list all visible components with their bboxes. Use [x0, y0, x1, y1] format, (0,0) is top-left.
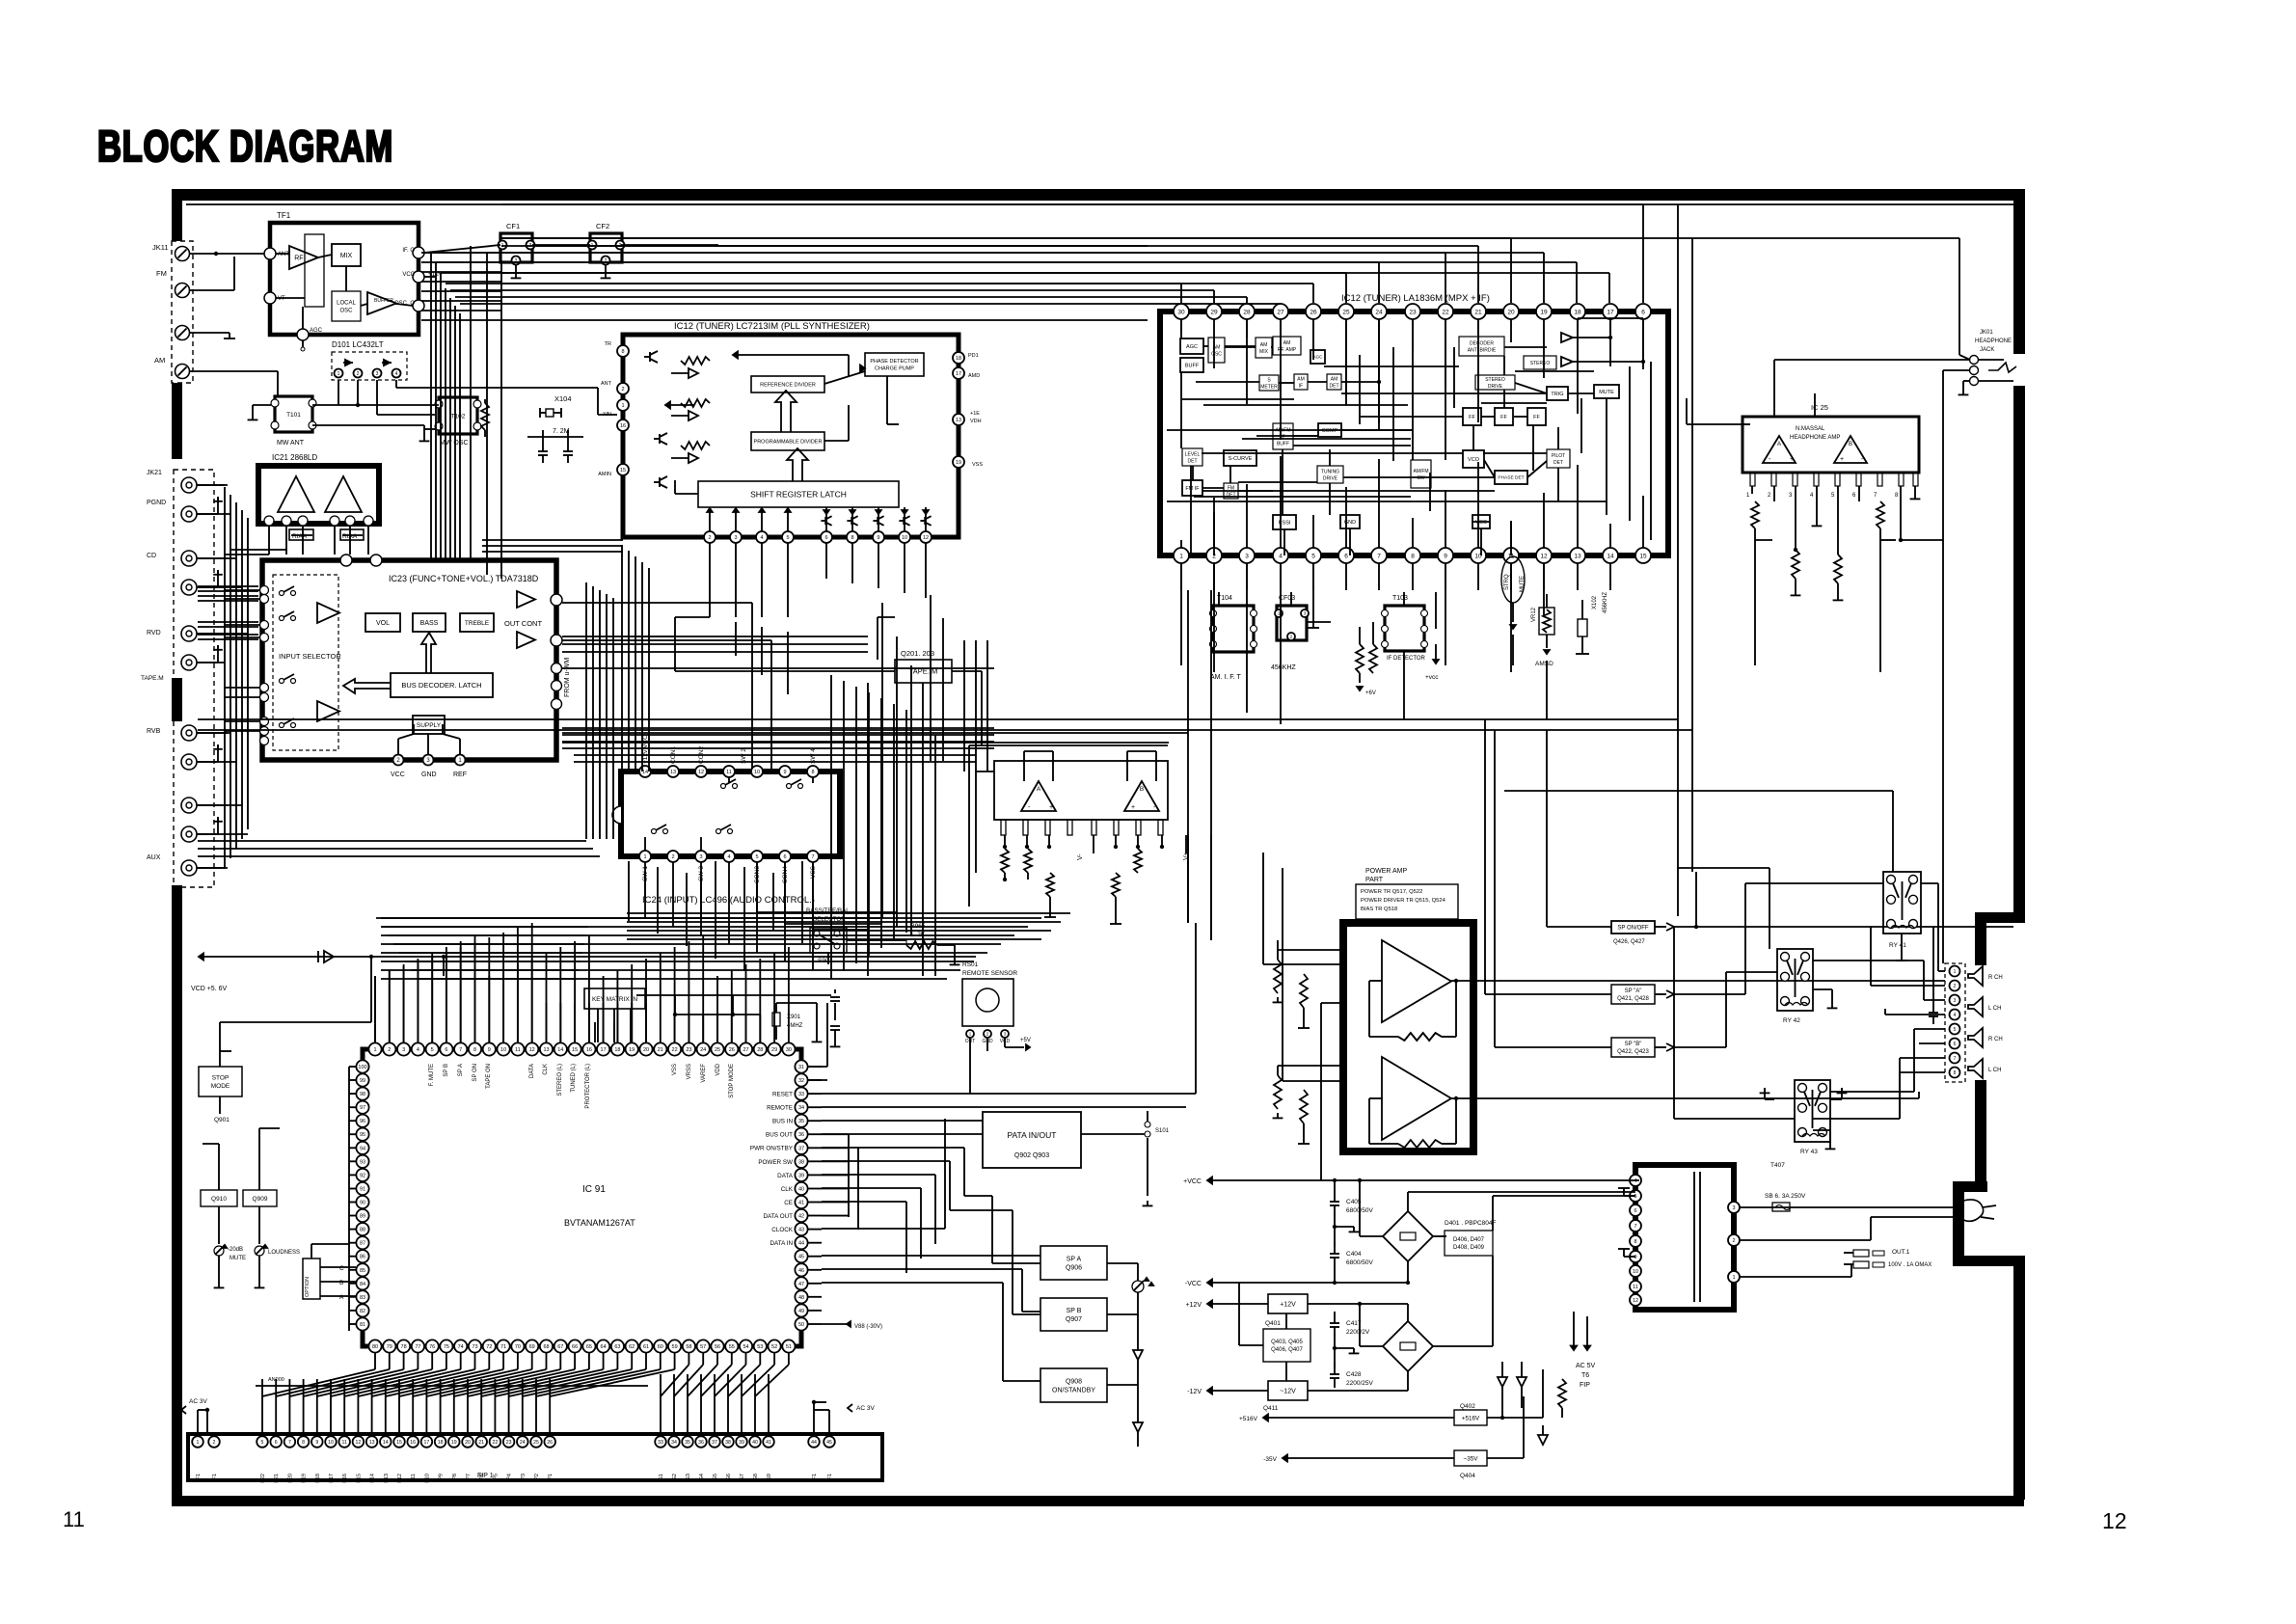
svg-text:+12v VCC: +12v VCC [642, 735, 649, 764]
svg-text:MW OSC: MW OSC [440, 440, 469, 447]
svg-text:22: 22 [493, 1440, 499, 1446]
svg-text:25: 25 [533, 1440, 539, 1446]
svg-text:6: 6 [1634, 1208, 1636, 1214]
svg-text:F1: F1 [827, 1474, 833, 1479]
svg-text:7: 7 [1634, 1224, 1636, 1230]
svg-text:19: 19 [451, 1440, 457, 1446]
svg-text:RIAA: RIAA [292, 533, 308, 540]
svg-text:13: 13 [369, 1440, 375, 1446]
svg-text:+12V: +12V [1185, 1302, 1202, 1309]
svg-text:80: 80 [372, 1344, 378, 1350]
svg-text:CE: CE [784, 1200, 793, 1206]
svg-text:RF: RF [294, 256, 303, 262]
svg-text:VSS: VSS [672, 1064, 678, 1075]
svg-text:SP "A": SP "A" [1625, 988, 1642, 994]
svg-text:P8: P8 [452, 1474, 458, 1480]
svg-text:TR: TR [605, 341, 611, 347]
svg-text:62: 62 [629, 1344, 635, 1350]
svg-text:IF: IF [1299, 383, 1303, 389]
svg-text:22: 22 [1442, 309, 1449, 315]
svg-text:35: 35 [685, 1440, 690, 1446]
svg-text:VAREF: VAREF [701, 1064, 707, 1083]
svg-text:OUT CONT: OUT CONT [504, 619, 542, 628]
svg-text:VDH: VDH [970, 419, 982, 424]
svg-text:93: 93 [360, 1159, 365, 1165]
svg-text:STEREO: STEREO [1530, 361, 1551, 366]
svg-text:50: 50 [798, 1322, 804, 1328]
svg-text:1: 1 [621, 403, 624, 409]
svg-text:2: 2 [388, 1047, 391, 1053]
svg-text:94: 94 [360, 1146, 365, 1151]
svg-text:POWER SW: POWER SW [758, 1159, 793, 1166]
svg-text:10: 10 [902, 535, 907, 541]
svg-text:AM: AM [1283, 340, 1291, 346]
svg-text:56: 56 [715, 1344, 720, 1350]
svg-text:34: 34 [798, 1105, 804, 1111]
svg-text:4: 4 [1810, 493, 1814, 499]
svg-text:+6V: +6V [1365, 690, 1376, 696]
svg-text:SP A: SP A [458, 1064, 464, 1076]
svg-text:40: 40 [798, 1186, 804, 1192]
svg-text:67: 67 [557, 1344, 563, 1350]
svg-text:96: 96 [360, 1119, 365, 1124]
svg-text:79: 79 [387, 1344, 392, 1350]
svg-text:15: 15 [572, 1047, 578, 1053]
svg-text:D406, D407: D406, D407 [1453, 1237, 1485, 1243]
svg-text:BASS: BASS [420, 620, 439, 627]
svg-text:TUNED (L): TUNED (L) [571, 1064, 577, 1093]
svg-text:Q401: Q401 [1265, 1320, 1281, 1327]
svg-text:X102: X102 [1592, 595, 1598, 609]
svg-text:8: 8 [621, 349, 624, 355]
svg-text:REF: REF [453, 771, 467, 778]
svg-text:SP B: SP B [444, 1064, 449, 1077]
svg-text:1: 1 [643, 854, 646, 860]
svg-text:91: 91 [360, 1186, 365, 1192]
svg-text:7: 7 [811, 854, 814, 860]
svg-text:22: 22 [672, 1047, 678, 1053]
svg-text:38: 38 [798, 1159, 804, 1165]
svg-text:L CH: L CH [1988, 1006, 2001, 1012]
svg-text:33: 33 [798, 1092, 804, 1097]
svg-text:AM. I. F. T: AM. I. F. T [1210, 674, 1241, 681]
svg-text:DET: DET [1188, 458, 1198, 464]
svg-text:T102: T102 [451, 413, 466, 420]
svg-text:6: 6 [1344, 553, 1348, 559]
svg-text:MUTE: MUTE [1520, 576, 1526, 592]
svg-text:8: 8 [1954, 1070, 1957, 1076]
svg-text:+vcc: +vcc [1425, 674, 1439, 681]
svg-text:S101: S101 [1155, 1128, 1170, 1134]
svg-text:IF. O: IF. O [402, 248, 415, 254]
svg-text:Q901: Q901 [214, 1117, 230, 1123]
svg-text:P15: P15 [356, 1474, 362, 1483]
svg-text:7: 7 [1874, 493, 1877, 499]
svg-text:C428: C428 [1346, 1371, 1362, 1378]
svg-text:6800/50V: 6800/50V [1346, 1259, 1373, 1266]
svg-text:VCD +5. 6V: VCD +5. 6V [191, 986, 227, 992]
svg-text:CF2: CF2 [596, 222, 609, 230]
svg-text:52: 52 [771, 1344, 777, 1350]
svg-text:STEREO (L): STEREO (L) [557, 1064, 563, 1096]
svg-text:99: 99 [360, 1078, 365, 1084]
svg-text:D408, D409: D408, D409 [1453, 1245, 1485, 1251]
svg-text:11: 11 [342, 1440, 347, 1446]
svg-text:41: 41 [798, 1200, 804, 1205]
svg-text:IC12 (TUNER) LC7213IM (PLL S: IC12 (TUNER) LC7213IM (PLL SYNTHESIZER) [674, 321, 870, 332]
svg-text:36: 36 [698, 1440, 704, 1446]
svg-text:DRIVE: DRIVE [1323, 475, 1338, 481]
svg-text:18: 18 [1574, 309, 1581, 315]
svg-text:ANT: ANT [601, 381, 612, 387]
svg-text:1: 1 [1179, 553, 1183, 559]
svg-text:MODE: MODE [211, 1083, 230, 1090]
svg-text:DATA: DATA [529, 1064, 535, 1078]
svg-text:IF DETECTOR: IF DETECTOR [1387, 656, 1426, 662]
svg-text:88: 88 [360, 1228, 365, 1233]
svg-text:MW ANT: MW ANT [277, 440, 305, 447]
svg-text:AC 5V: AC 5V [1576, 1363, 1596, 1369]
svg-text:PD1: PD1 [968, 353, 979, 359]
svg-text:4: 4 [1954, 1013, 1957, 1018]
svg-text:G2: G2 [672, 1474, 678, 1480]
svg-text:20: 20 [643, 1047, 649, 1053]
svg-text:11: 11 [63, 1507, 85, 1531]
svg-text:13: 13 [543, 1047, 549, 1053]
svg-text:IC 91: IC 91 [582, 1184, 606, 1195]
svg-text:F1: F1 [212, 1474, 218, 1479]
svg-text:13: 13 [1574, 553, 1581, 559]
svg-text:PROGRAMMABLE DIVIDER: PROGRAMMABLE DIVIDER [754, 439, 823, 445]
svg-text:41: 41 [766, 1440, 771, 1446]
svg-text:48: 48 [798, 1295, 804, 1301]
svg-text:6: 6 [1852, 493, 1856, 499]
svg-text:9: 9 [488, 1047, 491, 1053]
svg-text:INPUT SELECTOR: INPUT SELECTOR [279, 652, 341, 661]
svg-text:FM IF: FM IF [1185, 486, 1200, 492]
svg-text:SP B: SP B [1067, 1308, 1082, 1314]
svg-text:60: 60 [658, 1344, 663, 1350]
svg-text:Q906: Q906 [1066, 1265, 1082, 1272]
svg-text:95: 95 [360, 1132, 365, 1138]
svg-text:DET: DET [1553, 460, 1563, 466]
svg-text:21: 21 [478, 1440, 484, 1446]
svg-text:G9: G9 [767, 1474, 772, 1480]
svg-text:456KHZ: 456KHZ [1271, 664, 1296, 671]
svg-text:LEVEL: LEVEL [1185, 451, 1201, 457]
svg-text:8: 8 [851, 535, 853, 541]
svg-text:4: 4 [727, 854, 730, 860]
svg-text:54: 54 [743, 1344, 748, 1350]
svg-text:35: 35 [798, 1119, 804, 1124]
svg-text:Q909: Q909 [253, 1196, 268, 1203]
svg-text:38: 38 [725, 1440, 731, 1446]
svg-text:7: 7 [1954, 1056, 1957, 1062]
svg-text:IC21 2868LD: IC21 2868LD [272, 453, 317, 462]
svg-text:AMD: AMD [968, 373, 980, 379]
svg-text:20: 20 [465, 1440, 471, 1446]
svg-text:Q907: Q907 [1066, 1316, 1082, 1323]
svg-text:44: 44 [798, 1241, 804, 1247]
svg-text:6: 6 [1641, 309, 1645, 315]
svg-text:P10: P10 [424, 1474, 430, 1483]
svg-text:OSC: OSC [339, 309, 353, 314]
svg-text:DRIVE: DRIVE [1488, 384, 1503, 390]
svg-text:51: 51 [786, 1344, 792, 1350]
svg-text:FF: FF [1533, 415, 1540, 420]
svg-text:FF: FF [1500, 415, 1507, 420]
svg-text:PHASE DET: PHASE DET [1498, 475, 1524, 481]
svg-text:39: 39 [798, 1173, 804, 1178]
svg-text:X104: X104 [554, 394, 572, 403]
svg-text:27: 27 [1277, 309, 1284, 315]
svg-text:VRSS: VRSS [687, 1064, 692, 1079]
svg-text:7: 7 [459, 1047, 462, 1053]
svg-text:12: 12 [356, 1440, 362, 1446]
svg-text:CLK: CLK [543, 1064, 549, 1075]
svg-text:16: 16 [586, 1047, 592, 1053]
svg-text:4: 4 [760, 535, 763, 541]
svg-text:D101 LC432LT: D101 LC432LT [332, 340, 384, 349]
svg-text:+: + [1840, 456, 1844, 463]
svg-text:B: B [1140, 786, 1144, 793]
svg-text:24: 24 [520, 1440, 526, 1446]
svg-text:4: 4 [395, 371, 398, 377]
svg-text:30: 30 [786, 1047, 792, 1053]
svg-text:VT: VT [278, 296, 285, 302]
svg-text:LOUDNESS: LOUDNESS [268, 1250, 300, 1256]
svg-text:SP A: SP A [1067, 1257, 1082, 1263]
svg-text:70: 70 [515, 1344, 521, 1350]
svg-text:SHIFT REGISTER LATCH: SHIFT REGISTER LATCH [750, 490, 847, 500]
svg-text:1: 1 [1746, 493, 1750, 499]
svg-text:37: 37 [798, 1146, 804, 1151]
svg-text:~12V: ~12V [1280, 1389, 1296, 1395]
svg-text:78: 78 [401, 1344, 407, 1350]
svg-text:42: 42 [798, 1213, 804, 1219]
svg-text:POWER TR Q517, Q522: POWER TR Q517, Q522 [1361, 889, 1422, 895]
svg-text:3: 3 [402, 1047, 405, 1053]
svg-text:BVTANAM1267AT: BVTANAM1267AT [564, 1218, 635, 1228]
svg-text:8: 8 [1634, 1239, 1636, 1245]
svg-text:39: 39 [739, 1440, 744, 1446]
svg-text:24: 24 [1375, 309, 1383, 315]
svg-text:CLK: CLK [781, 1186, 794, 1193]
svg-text:FM: FM [156, 269, 167, 278]
svg-text:Q422, Q423: Q422, Q423 [1617, 1049, 1649, 1055]
svg-text:15: 15 [1639, 553, 1647, 559]
svg-text:36: 36 [798, 1132, 804, 1138]
svg-text:1: 1 [1732, 1275, 1735, 1281]
svg-text:1: 1 [1954, 969, 1957, 975]
svg-text:RS01: RS01 [962, 961, 979, 968]
svg-text:REFERENCE DIVIDER: REFERENCE DIVIDER [760, 382, 816, 388]
svg-text:53: 53 [757, 1344, 763, 1350]
svg-text:20: 20 [1507, 309, 1515, 315]
svg-text:8: 8 [1895, 493, 1899, 499]
svg-text:L CH: L CH [1988, 1068, 2001, 1073]
svg-text:RY 43: RY 43 [1800, 1149, 1818, 1155]
svg-text:V88 (-30V): V88 (-30V) [854, 1324, 882, 1330]
svg-text:12: 12 [1633, 1298, 1638, 1304]
svg-text:DATA OUT: DATA OUT [763, 1213, 793, 1220]
svg-text:44: 44 [811, 1440, 817, 1446]
svg-text:AMIN: AMIN [598, 472, 611, 477]
svg-text:P9: P9 [439, 1474, 445, 1480]
svg-text:P17: P17 [329, 1474, 335, 1483]
svg-text:Q402: Q402 [1460, 1403, 1475, 1410]
svg-text:65: 65 [586, 1344, 592, 1350]
svg-text:~35V: ~35V [1464, 1455, 1479, 1462]
svg-text:AM: AM [1331, 376, 1338, 382]
svg-text:OPTION: OPTION [305, 1277, 311, 1297]
svg-text:FIP 1: FIP 1 [477, 1473, 494, 1479]
svg-text:17: 17 [1607, 309, 1614, 315]
svg-text:8: 8 [1411, 553, 1415, 559]
svg-text:AM: AM [1297, 376, 1305, 382]
svg-text:69: 69 [529, 1344, 535, 1350]
svg-text:SUPPLY: SUPPLY [417, 722, 442, 729]
svg-text:82: 82 [360, 1309, 365, 1314]
svg-text:28: 28 [1243, 309, 1251, 315]
svg-text:DET: DET [1330, 383, 1339, 389]
svg-text:AGC: AGC [1313, 355, 1324, 360]
svg-text:61: 61 [643, 1344, 649, 1350]
svg-text:3: 3 [376, 371, 379, 377]
svg-text:31: 31 [798, 1065, 804, 1070]
svg-text:2200/25V: 2200/25V [1346, 1380, 1373, 1387]
svg-text:7: 7 [1377, 553, 1381, 559]
svg-text:Q403, Q405: Q403, Q405 [1271, 1340, 1303, 1345]
svg-text:55: 55 [729, 1344, 735, 1350]
svg-text:12: 12 [2102, 1508, 2127, 1533]
svg-text:C404: C404 [1346, 1251, 1362, 1258]
svg-text:19: 19 [629, 1047, 635, 1053]
svg-text:18: 18 [438, 1440, 444, 1446]
svg-text:2: 2 [1768, 493, 1771, 499]
svg-text:RESET: RESET [772, 1092, 793, 1098]
svg-text:9: 9 [315, 1440, 318, 1446]
svg-text:16: 16 [620, 423, 626, 429]
svg-text:9: 9 [1444, 553, 1447, 559]
svg-text:66: 66 [572, 1344, 578, 1350]
svg-text:TUNING: TUNING [1321, 469, 1339, 474]
svg-text:14: 14 [557, 1047, 563, 1053]
svg-text:-: - [1769, 456, 1771, 463]
svg-text:P7: P7 [466, 1474, 472, 1480]
svg-text:RVB: RVB [147, 728, 161, 735]
svg-text:59: 59 [672, 1344, 678, 1350]
svg-text:23: 23 [506, 1440, 512, 1446]
svg-text:1: 1 [338, 371, 340, 377]
svg-text:V-: V- [1077, 853, 1084, 860]
svg-text:POWER AMP: POWER AMP [1365, 868, 1408, 875]
svg-text:+516V: +516V [1462, 1415, 1480, 1421]
svg-text:24: 24 [700, 1047, 706, 1053]
svg-text:25: 25 [1342, 309, 1350, 315]
svg-text:AC 3V: AC 3V [856, 1405, 875, 1412]
svg-text:9: 9 [1634, 1255, 1636, 1260]
svg-text:AM: AM [1260, 342, 1268, 348]
svg-text:34: 34 [671, 1440, 677, 1446]
svg-text:74: 74 [458, 1344, 464, 1350]
svg-text:AM/FM: AM/FM [1413, 469, 1428, 474]
svg-text:100: 100 [358, 1065, 366, 1070]
svg-text:+VCC: +VCC [1183, 1178, 1202, 1185]
svg-text:TAPE.M: TAPE.M [141, 675, 164, 682]
svg-text:-: - [1028, 804, 1031, 811]
svg-text:BUS DECODER. LATCH: BUS DECODER. LATCH [401, 681, 481, 690]
svg-text:2: 2 [708, 535, 711, 541]
svg-text:VDD: VDD [716, 1063, 721, 1075]
svg-text:JK01: JK01 [1980, 330, 1993, 336]
svg-text:N.MASSAL: N.MASSAL [1796, 426, 1825, 432]
svg-text:+: + [1790, 456, 1794, 463]
svg-text:T6: T6 [1581, 1372, 1589, 1379]
svg-text:BUS IN: BUS IN [772, 1119, 793, 1125]
svg-text:FIP: FIP [1580, 1382, 1590, 1389]
svg-text:5: 5 [755, 854, 758, 860]
svg-text:23: 23 [686, 1047, 691, 1053]
svg-text:3: 3 [734, 535, 737, 541]
svg-text:VR12: VR12 [1531, 607, 1537, 622]
svg-text:14: 14 [383, 1440, 389, 1446]
svg-text:2200/2V: 2200/2V [1346, 1329, 1370, 1336]
svg-text:C: C [339, 1265, 344, 1272]
svg-text:JK11: JK11 [152, 243, 169, 252]
svg-text:AGC: AGC [310, 328, 323, 334]
svg-text:11: 11 [515, 1047, 521, 1053]
svg-text:15: 15 [396, 1440, 402, 1446]
svg-text:17: 17 [956, 371, 961, 377]
svg-text:BIAS TR Q518: BIAS TR Q518 [1361, 907, 1397, 912]
svg-text:8: 8 [302, 1440, 305, 1446]
svg-text:MIX: MIX [340, 253, 353, 259]
svg-text:5: 5 [786, 535, 789, 541]
svg-text:B: B [1849, 442, 1852, 447]
svg-text:21: 21 [1474, 309, 1482, 315]
svg-text:VCC: VCC [402, 272, 415, 278]
svg-text:Q902 Q903: Q902 Q903 [1014, 1152, 1049, 1159]
svg-text:ON/STANDBY: ON/STANDBY [1052, 1388, 1095, 1394]
svg-text:PILOT: PILOT [1552, 453, 1565, 459]
svg-text:DATA IN: DATA IN [770, 1240, 793, 1247]
svg-text:RY 42: RY 42 [1783, 1017, 1800, 1024]
svg-text:26: 26 [1310, 309, 1317, 315]
svg-text:10: 10 [500, 1047, 506, 1053]
svg-text:AGC: AGC [1186, 344, 1198, 350]
svg-text:12: 12 [923, 535, 929, 541]
svg-text:45: 45 [798, 1255, 804, 1260]
svg-text:GND: GND [421, 771, 437, 778]
svg-text:P5: P5 [493, 1474, 499, 1480]
svg-text:SP ON/OFF: SP ON/OFF [1617, 926, 1649, 932]
svg-text:98: 98 [360, 1092, 365, 1097]
svg-text:5: 5 [1954, 1027, 1957, 1033]
svg-text:12: 12 [698, 770, 704, 775]
svg-text:A: A [339, 1294, 344, 1301]
svg-text:ANT: ANT [278, 252, 289, 257]
svg-text:19: 19 [1540, 309, 1548, 315]
svg-text:RY 41: RY 41 [1889, 942, 1906, 949]
svg-text:G6: G6 [726, 1474, 732, 1480]
svg-text:5: 5 [431, 1047, 434, 1053]
svg-text:2: 2 [1954, 984, 1957, 989]
svg-text:P4: P4 [507, 1474, 513, 1480]
svg-text:Q421, Q428: Q421, Q428 [1617, 996, 1649, 1002]
svg-text:75: 75 [444, 1344, 449, 1350]
svg-text:STEREO: STEREO [1485, 377, 1505, 383]
